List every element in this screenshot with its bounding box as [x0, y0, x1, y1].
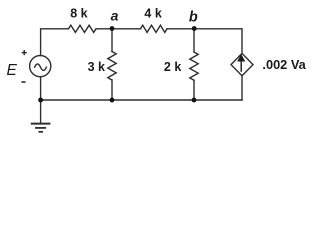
wire top right to current source: [167, 29, 242, 54]
svg-text:8 k: 8 k: [70, 7, 87, 21]
wire source bottom to rail and ground stem: [40, 77, 42, 123]
wire current source to bottom rail: [241, 76, 243, 100]
resistor R2 4k: [141, 25, 168, 32]
resistor R3 3k: [108, 52, 116, 81]
resistor R1 8k: [69, 25, 97, 32]
dependent current source diamond: [231, 53, 253, 75]
voltage source E circle: [30, 56, 51, 77]
wire node b down to 2k: [193, 29, 195, 52]
wire top middle (node a segment): [96, 28, 141, 30]
wire 2k to bottom rail: [193, 80, 195, 100]
svg-text:.002 Va: .002 Va: [262, 57, 306, 72]
junction bottom 3k: [110, 98, 115, 103]
svg-text:E: E: [7, 62, 18, 79]
svg-text:3 k: 3 k: [88, 60, 105, 74]
sine wave inside source: [35, 64, 47, 70]
resistor R4 2k: [190, 52, 198, 80]
plus sign of source: [22, 50, 27, 55]
junction node b: [192, 26, 197, 31]
svg-text:4 k: 4 k: [144, 7, 161, 21]
svg-text:a: a: [111, 8, 119, 24]
junction bottom left: [38, 98, 43, 103]
wire 3k to bottom rail: [111, 80, 113, 100]
junction node a: [110, 26, 115, 31]
ground: [31, 124, 51, 132]
svg-text:2 k: 2 k: [164, 60, 181, 74]
wire node a down to 3k: [111, 29, 113, 52]
wire bottom rail: [41, 99, 242, 101]
svg-text:b: b: [189, 9, 198, 25]
wire top-left vertical: [41, 29, 69, 56]
junction bottom 2k: [192, 98, 197, 103]
arrow of dependent source: [238, 55, 244, 72]
minus sign of source: [22, 81, 26, 83]
